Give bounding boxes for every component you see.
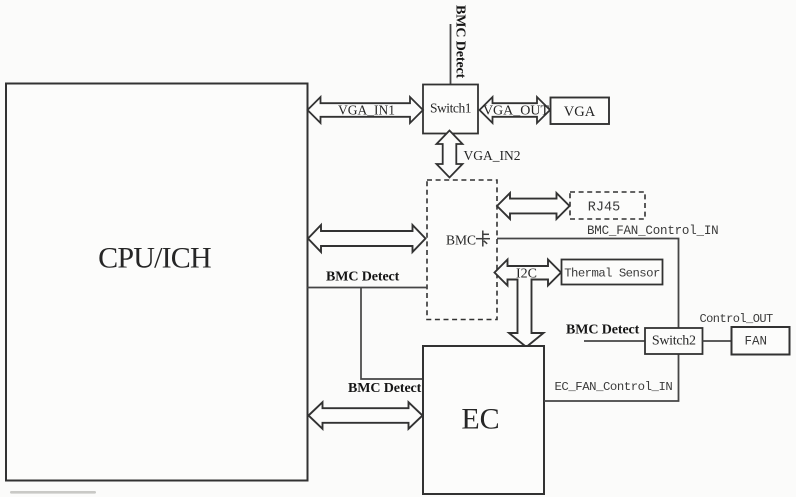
svg-text:VGA_OUT: VGA_OUT xyxy=(483,104,550,119)
Thermal Sensor block xyxy=(562,260,663,285)
wire Control_OUT from Switch2 to FAN xyxy=(703,340,732,342)
svg-text:Thermal Sensor: Thermal Sensor xyxy=(564,267,660,281)
svg-text:CPU/ICH: CPU/ICH xyxy=(98,242,211,275)
svg-text:I2C: I2C xyxy=(516,267,537,282)
scan smudge bottom left xyxy=(10,491,96,494)
svg-text:BMC_FAN_Control_IN: BMC_FAN_Control_IN xyxy=(587,224,718,238)
svg-text:BMC Detect: BMC Detect xyxy=(326,270,400,285)
wire BMC Detect top vertical into Switch1 xyxy=(450,24,452,84)
svg-text:BMC: BMC xyxy=(446,233,476,248)
svg-text:Switch1: Switch1 xyxy=(430,101,471,116)
Switch2 block xyxy=(645,328,703,354)
arrow CPU to BMC card double arrow xyxy=(308,225,426,252)
RJ45 dashed block xyxy=(570,192,645,219)
svg-text:VGA_IN1: VGA_IN1 xyxy=(338,103,395,118)
svg-text:VGA_IN2: VGA_IN2 xyxy=(464,148,521,163)
svg-text:BMC Detect: BMC Detect xyxy=(348,381,422,396)
arrow I2C double arrow with down branch to EC xyxy=(495,260,562,348)
svg-text:FAN: FAN xyxy=(745,335,768,349)
svg-text:RJ45: RJ45 xyxy=(588,201,620,216)
svg-text:EC_FAN_Control_IN: EC_FAN_Control_IN xyxy=(555,380,673,394)
CPU/ICH block xyxy=(6,84,308,481)
svg-text:BMC Detect: BMC Detect xyxy=(566,323,640,338)
BMC card dashed block xyxy=(427,180,497,320)
wire BMC Detect mid from CPU to BMC card xyxy=(307,287,427,289)
wire BMC Detect right into Switch2 xyxy=(584,340,645,342)
svg-text:Control_OUT: Control_OUT xyxy=(700,312,774,326)
svg-text:VGA: VGA xyxy=(564,104,596,120)
arrow VGA_OUT (Switch1 to VGA double arrow) xyxy=(480,97,551,123)
EC block xyxy=(423,346,544,494)
wire EC_FAN_Control_IN from EC to Switch2 xyxy=(544,354,679,401)
svg-text:Switch2: Switch2 xyxy=(652,334,696,349)
svg-text:EC: EC xyxy=(461,403,499,436)
arrow BMC card to RJ45 double arrow xyxy=(497,193,570,219)
arrow VGA_IN1 (CPU to Switch1 double arrow) xyxy=(308,97,424,123)
wire BMC Detect branch down to EC xyxy=(361,288,423,380)
Switch1 block xyxy=(423,85,478,134)
VGA block xyxy=(551,98,610,125)
FAN block xyxy=(732,327,790,355)
arrow CPU to EC double arrow xyxy=(309,402,423,429)
svg-text:BMC Detect: BMC Detect xyxy=(453,5,468,79)
arrow VGA_IN2 (Switch1 to BMC card vertical double arrow) xyxy=(437,131,463,178)
wire BMC_FAN_Control_IN from BMC card to Switch2 xyxy=(497,239,679,329)
